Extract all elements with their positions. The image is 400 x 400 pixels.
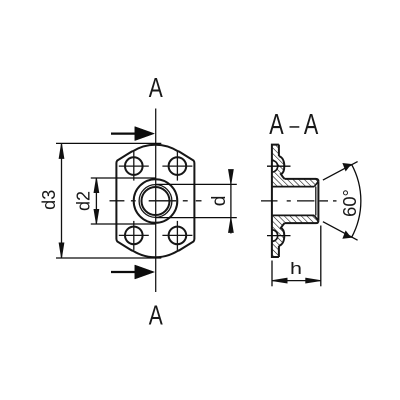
countersink edge top (314, 181, 318, 186)
dimension h right extension line (320, 226, 322, 287)
thread bore circle (142, 187, 170, 215)
countersink edge bottom (314, 215, 318, 220)
section hatch upper region (272, 145, 319, 187)
lower bolt-hole bead inner lens (white) (272, 230, 278, 242)
thread major circle (139, 185, 172, 218)
boss end face (317, 181, 319, 220)
svg-text:d2: d2 (73, 191, 93, 211)
upper bead inner arc (272, 160, 278, 172)
thread inner line top (273, 186, 315, 188)
60 degree arc arrow top (341, 162, 352, 173)
countersink base line (315, 187, 317, 216)
dimension h left extension line (271, 261, 273, 287)
section main centerline (261, 200, 337, 202)
svg-text:d: d (209, 196, 230, 207)
60 degree upper leader (323, 162, 358, 181)
section plate right edge bottom (278, 246, 280, 257)
lower bolt hole centerline (267, 235, 291, 237)
lower bead outer curve (279, 223, 285, 246)
section view label A-A dash (290, 126, 300, 128)
dimension d3 extension line top (56, 142, 161, 144)
dimension d3 extension line bottom (56, 257, 161, 259)
section arrow bottom (111, 265, 154, 279)
svg-text:A: A (149, 300, 163, 331)
section plate right edge top (278, 145, 280, 157)
svg-text:A: A (304, 108, 318, 140)
svg-text:A: A (269, 108, 283, 140)
upper bead outer curve (279, 156, 285, 179)
front view: horizontal centerline (110, 200, 202, 202)
center boss outer circle (134, 179, 178, 223)
60 degree arc arrow bottom (341, 229, 352, 240)
bolt hole top-left (119, 152, 149, 181)
bolt hole bottom-left (119, 221, 149, 250)
svg-text:d3: d3 (39, 190, 59, 210)
section arrow top (111, 127, 154, 141)
dimension d extension line bottom (156, 217, 237, 219)
upper bolt-hole bead inner lens (white) (272, 160, 278, 172)
dimension d2 line with arrows (94, 178, 99, 224)
boss outer bottom line (285, 221, 319, 223)
front view: flange outline (116, 145, 194, 258)
bolt hole top-right (162, 152, 192, 181)
dimension d3 line with arrows (59, 143, 64, 258)
60 degree dimension arc (351, 164, 360, 238)
lower bead inner arc (272, 230, 278, 242)
dimension d2 extension line top (91, 177, 156, 179)
svg-text:h: h (290, 259, 302, 278)
svg-text:A: A (149, 72, 163, 103)
svg-text:60°: 60° (339, 189, 360, 217)
upper bolt hole centerline (267, 165, 291, 167)
thread inner line bottom (273, 214, 315, 216)
bolt hole bottom-right (162, 221, 192, 250)
section plate outline (272, 145, 279, 257)
dimension d line with outside arrows (229, 170, 234, 234)
dimension d2 extension line bottom (91, 223, 156, 225)
60 degree lower leader (323, 222, 358, 241)
dimension d extension line top (156, 183, 237, 185)
dimension h line with arrows (272, 278, 321, 283)
section hatch lower region (272, 215, 319, 257)
front view: vertical section centerline A-A (155, 109, 157, 293)
boss outer top line (285, 179, 319, 181)
